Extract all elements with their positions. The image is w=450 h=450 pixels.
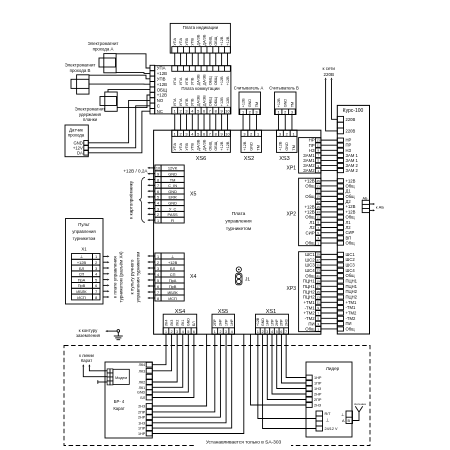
svg-text:+ТМ1: +ТМ1 xyxy=(303,300,315,305)
connector XS2 xyxy=(241,130,262,152)
svg-text:к линии: к линии xyxy=(79,353,94,358)
svg-text:-ТМ2: -ТМ2 xyxy=(305,316,316,321)
svg-text:ОБЩ: ОБЩ xyxy=(208,141,212,150)
wire XS1 +12В to Lider power xyxy=(258,334,316,418)
svg-text:3: 3 xyxy=(157,267,159,271)
svg-text:Общ: Общ xyxy=(305,194,315,199)
svg-text:Общ: Общ xyxy=(305,241,315,246)
svg-text:6: 6 xyxy=(280,330,282,334)
svg-text:ОБЩ: ОБЩ xyxy=(208,76,212,85)
modem box xyxy=(113,369,129,384)
svg-text:УПА: УПА xyxy=(179,142,183,150)
svg-text:GND: GND xyxy=(168,189,177,194)
svg-text:1: 1 xyxy=(257,131,259,136)
svg-text:УПА: УПА xyxy=(173,98,177,106)
svg-text:8: 8 xyxy=(215,131,217,136)
svg-text:планки: планки xyxy=(83,117,98,122)
svg-text:к пульту ручного: к пульту ручного xyxy=(130,259,135,294)
svg-text:3: 3 xyxy=(185,131,187,136)
svg-text:17: 17 xyxy=(317,285,321,289)
svg-text:1: 1 xyxy=(165,330,167,334)
svg-text:Устанавливается только в SA-30: Устанавливается только в SA-303 xyxy=(206,440,282,446)
svg-text:УПА: УПА xyxy=(179,98,183,106)
svg-text:ЗАМ2: ЗАМ2 xyxy=(303,168,315,173)
svg-text:4: 4 xyxy=(182,330,184,334)
svg-text:3: 3 xyxy=(95,267,97,271)
svg-text:Датчик: Датчик xyxy=(69,127,83,132)
svg-text:СИР: СИР xyxy=(306,230,315,235)
svg-text:УПВ: УПВ xyxy=(185,37,189,45)
svg-text:ТМ: ТМ xyxy=(255,102,259,107)
svg-text:ШС3: ШС3 xyxy=(305,263,315,268)
svg-text:ПЦН2: ПЦН2 xyxy=(303,295,315,300)
wire electromagnet hold to ОБЩ xyxy=(108,90,150,92)
svg-text:+12В: +12В xyxy=(256,317,260,326)
svg-text:1: 1 xyxy=(95,255,97,259)
wires XS4 to BR-4 xyxy=(152,334,166,365)
svg-text:ОБЩ: ОБЩ xyxy=(208,97,212,106)
svg-text:1НР: 1НР xyxy=(314,376,322,380)
svg-text:4: 4 xyxy=(157,202,159,206)
svg-text:Курс-100: Курс-100 xyxy=(343,108,364,114)
svg-text:23: 23 xyxy=(317,269,321,273)
svg-text:УПВ: УПВ xyxy=(185,142,189,150)
svg-text:3: 3 xyxy=(176,330,178,334)
svg-text:220В: 220В xyxy=(346,117,356,122)
svg-text:1: 1 xyxy=(157,219,159,223)
svg-text:8: 8 xyxy=(95,296,97,300)
connector XP2 xyxy=(299,178,321,245)
svg-text:У_С: У_С xyxy=(169,206,177,211)
svg-text:ПрА: ПрА xyxy=(78,277,86,282)
svg-text:12VK: 12VK xyxy=(168,166,178,171)
connector XS3 xyxy=(277,130,298,152)
svg-text:1: 1 xyxy=(174,131,176,136)
svg-text:Карат: Карат xyxy=(113,406,124,411)
svg-text:ОБЩ: ОБЩ xyxy=(214,36,218,45)
svg-text:ПЦН1: ПЦН1 xyxy=(346,279,358,284)
svg-text:ЛК4: ЛК4 xyxy=(139,363,146,367)
svg-text:2ПР: 2ПР xyxy=(280,319,284,326)
svg-text:FI: FI xyxy=(171,218,174,223)
svg-text:ЛК2: ЛК2 xyxy=(175,320,179,326)
svg-text:+12В: +12В xyxy=(241,98,245,107)
svg-text:прохода А: прохода А xyxy=(93,47,114,52)
wire sensor DA to NC xyxy=(88,111,150,153)
svg-text:23: 23 xyxy=(317,184,321,188)
svg-text:ШС4: ШС4 xyxy=(346,268,356,273)
svg-text:СП: СП xyxy=(170,272,176,277)
svg-text:13: 13 xyxy=(317,138,321,142)
svg-text:1ПР: 1ПР xyxy=(224,319,228,326)
wire electromagnet hold to +12В xyxy=(117,95,150,108)
svg-text:4: 4 xyxy=(95,273,97,277)
svg-text:1НЗ: 1НЗ xyxy=(314,387,322,391)
svg-text:TM: TM xyxy=(170,177,176,182)
svg-text:6: 6 xyxy=(203,109,205,114)
svg-text:2НР: 2НР xyxy=(314,393,322,397)
svg-text:прохода: прохода xyxy=(68,133,85,138)
connector XS6 xyxy=(172,130,231,152)
svg-text:+12В: +12В xyxy=(278,141,282,150)
svg-text:ЛК1: ЛК1 xyxy=(139,386,146,390)
svg-text:+12В: +12В xyxy=(157,93,167,98)
svg-text:4: 4 xyxy=(271,330,273,334)
svg-text:ШС2: ШС2 xyxy=(305,257,315,262)
connector XP3 xyxy=(299,252,321,332)
svg-text:ШС2: ШС2 xyxy=(346,257,356,262)
svg-text:7: 7 xyxy=(95,290,97,294)
svg-text:2НР: 2НР xyxy=(219,319,223,326)
svg-text:УПВ: УПВ xyxy=(191,98,195,106)
svg-text:1: 1 xyxy=(242,110,244,115)
wires reader B to XS3 xyxy=(278,115,280,131)
svg-text:2: 2 xyxy=(249,110,251,115)
svg-text:2ПР: 2ПР xyxy=(138,410,146,414)
Kurs-100 220V pins xyxy=(337,116,343,122)
svg-text:10: 10 xyxy=(156,167,160,171)
reader A box xyxy=(239,92,261,115)
svg-text:ИСП: ИСП xyxy=(77,295,86,300)
wires XS5 to BR-4 xyxy=(152,334,215,412)
svg-text:1: 1 xyxy=(292,131,294,136)
svg-text:1: 1 xyxy=(157,255,159,259)
svg-text:ДА/ЗВ: ДА/ЗВ xyxy=(202,34,206,45)
svg-text:БР- 4: БР- 4 xyxy=(114,399,125,404)
svg-text:X4: X4 xyxy=(190,274,196,280)
svg-text:8: 8 xyxy=(157,297,159,301)
wire to Lider 2НЗ xyxy=(251,334,307,405)
wires modem to Karat line xyxy=(89,366,107,371)
svg-text:11: 11 xyxy=(317,215,320,219)
svg-text:15: 15 xyxy=(317,290,321,294)
svg-text:11: 11 xyxy=(317,144,320,148)
svg-text:13: 13 xyxy=(317,295,321,299)
svg-text:4: 4 xyxy=(157,273,159,277)
svg-text:Плата индикации: Плата индикации xyxy=(183,25,219,30)
svg-text:УПА: УПА xyxy=(179,37,183,45)
svg-text:ШС1: ШС1 xyxy=(305,252,315,257)
modem service stub wire xyxy=(98,381,107,383)
svg-text:7: 7 xyxy=(157,184,159,188)
svg-text:GND: GND xyxy=(284,99,288,108)
svg-text:ПЦН1: ПЦН1 xyxy=(346,284,358,289)
svg-text:УПА: УПА xyxy=(173,37,177,45)
brace card reader rows xyxy=(139,178,145,223)
svg-text:GND: GND xyxy=(137,391,146,395)
wires XS1 to Lider relay pins xyxy=(286,334,306,377)
svg-text:ПрА: ПрА xyxy=(169,278,177,283)
svg-text:6: 6 xyxy=(95,284,97,288)
Lider power pins xyxy=(316,411,323,416)
svg-text:7: 7 xyxy=(209,109,211,114)
wire electromagnet A to УПА xyxy=(116,54,150,68)
svg-text:БЛ: БЛ xyxy=(140,396,145,400)
svg-text:ЛК2: ЛК2 xyxy=(139,381,146,385)
svg-text:к сети: к сети xyxy=(322,66,335,71)
svg-text:7: 7 xyxy=(157,291,159,295)
svg-text:+12В: +12В xyxy=(220,76,224,85)
svg-text:к картоприёмнику: к картоприёмнику xyxy=(129,180,134,218)
svg-text:+12В: +12В xyxy=(157,71,167,76)
svg-text:ЛК1: ЛК1 xyxy=(181,320,185,326)
svg-text:+ТМ1: +ТМ1 xyxy=(346,300,357,305)
svg-text:прохода В: прохода В xyxy=(70,68,91,73)
svg-text:21: 21 xyxy=(317,189,321,193)
svg-text:УПА: УПА xyxy=(157,66,166,71)
svg-text:6: 6 xyxy=(203,131,205,136)
svg-text:25: 25 xyxy=(317,263,321,267)
svg-text:1: 1 xyxy=(277,110,279,115)
svg-text:24/12 V: 24/12 V xyxy=(325,427,339,431)
svg-text:1НЗ: 1НЗ xyxy=(138,421,146,425)
svg-text:Общ: Общ xyxy=(305,273,315,278)
svg-text:5: 5 xyxy=(95,278,97,282)
svg-text:ДА/ЗВ: ДА/ЗВ xyxy=(202,74,206,85)
svg-text:БЛ: БЛ xyxy=(79,266,85,271)
connector X5 xyxy=(155,165,161,171)
svg-text:ЗАМ 2: ЗАМ 2 xyxy=(346,168,359,173)
svg-text:25: 25 xyxy=(317,179,321,183)
svg-text:Общ: Общ xyxy=(346,273,356,278)
svg-text:5: 5 xyxy=(157,196,159,200)
svg-text:ПЦН2: ПЦН2 xyxy=(346,289,358,294)
svg-text:УПА: УПА xyxy=(173,77,177,85)
svg-text:PASS: PASS xyxy=(168,212,178,217)
svg-text:Электромагнит: Электромагнит xyxy=(65,63,96,68)
svg-text:к контуру: к контуру xyxy=(79,328,99,333)
svg-text:УПВ: УПВ xyxy=(185,98,189,106)
svg-text:7: 7 xyxy=(209,131,211,136)
svg-text:+ТМ2: +ТМ2 xyxy=(303,311,315,316)
svg-text:2ПР: 2ПР xyxy=(314,398,322,402)
svg-text:5: 5 xyxy=(157,279,159,283)
svg-text:Считыватель А: Считыватель А xyxy=(234,85,264,90)
svg-text:Антенна: Антенна xyxy=(354,402,366,406)
svg-text:Модем: Модем xyxy=(115,376,127,380)
svg-text:1ПР: 1ПР xyxy=(138,427,146,431)
svg-text:+12В: +12В xyxy=(77,260,87,265)
svg-text:УПВ: УПВ xyxy=(157,77,166,82)
svg-text:C_IN: C_IN xyxy=(168,183,177,188)
svg-text:Общ: Общ xyxy=(346,326,356,331)
svg-text:УПВ: УПВ xyxy=(191,142,195,150)
jumper J1 xyxy=(236,267,241,272)
svg-text:+12В: +12В xyxy=(220,97,224,106)
svg-text:J1: J1 xyxy=(245,277,250,283)
wire BR-4 2НЗ up xyxy=(152,334,206,406)
svg-text:GND: GND xyxy=(261,318,265,326)
svg-text:ХР3: ХР3 xyxy=(287,286,297,292)
Lider antenna connector xyxy=(346,411,353,424)
svg-text:управления турникетом: управления турникетом xyxy=(136,252,141,303)
svg-text:ПЦН1: ПЦН1 xyxy=(303,284,315,289)
svg-text:+12В: +12В xyxy=(226,141,230,150)
svg-text:⊥: ⊥ xyxy=(326,418,330,423)
svg-text:17: 17 xyxy=(317,200,321,204)
wires reader A to XS2 xyxy=(242,115,244,131)
reader B box xyxy=(275,92,297,115)
svg-text:1НР: 1НР xyxy=(138,432,146,436)
svg-text:3: 3 xyxy=(185,109,187,114)
svg-text:1: 1 xyxy=(257,330,259,334)
indication board Плата индикации xyxy=(170,23,230,53)
svg-text:6: 6 xyxy=(193,330,195,334)
svg-text:ОБЩ: ОБЩ xyxy=(208,36,212,45)
dashed box SA-303 option xyxy=(64,346,370,446)
svg-text:2НР: 2НР xyxy=(138,416,146,420)
svg-text:1НР: 1НР xyxy=(266,319,270,326)
svg-text:2: 2 xyxy=(157,261,159,265)
svg-text:NO: NO xyxy=(157,98,164,103)
wire XS1 GND to Lider 24/12V xyxy=(263,334,316,428)
svg-text:-ТМ1: -ТМ1 xyxy=(346,305,356,310)
svg-text:Плата коммутации: Плата коммутации xyxy=(181,86,220,91)
commutation board Плата коммутации xyxy=(155,66,231,114)
svg-text:ПрВ: ПрВ xyxy=(78,283,86,288)
svg-text:1: 1 xyxy=(214,330,216,334)
svg-text:9: 9 xyxy=(157,173,159,177)
svg-text:6: 6 xyxy=(157,190,159,194)
svg-text:2НЗ: 2НЗ xyxy=(284,319,288,326)
electromagnet hold coil xyxy=(100,97,117,106)
antenna symbol xyxy=(353,412,360,421)
X1 arrows to main board xyxy=(103,255,107,257)
svg-text:Считыватель В: Считыватель В xyxy=(269,85,299,90)
svg-text:ПрВ: ПрВ xyxy=(169,284,177,289)
connector XP1 xyxy=(299,138,321,173)
svg-text:ОБЩ: ОБЩ xyxy=(214,76,218,85)
passage sensor Датчик прохода xyxy=(65,125,88,157)
svg-text:ERR: ERR xyxy=(168,195,176,200)
svg-text:УПА: УПА xyxy=(173,142,177,150)
svg-text:GND: GND xyxy=(285,142,289,151)
Kurs-100 XP3 pins and wires xyxy=(337,252,343,256)
svg-text:ДА/ЗВ: ДА/ЗВ xyxy=(202,139,206,150)
svg-text:+12В: +12В xyxy=(277,98,281,107)
svg-text:ШС4: ШС4 xyxy=(305,268,315,273)
svg-text:3: 3 xyxy=(279,131,281,136)
svg-text:ХР2: ХР2 xyxy=(287,212,297,218)
svg-text:2: 2 xyxy=(250,131,252,136)
svg-text:ПЦН2: ПЦН2 xyxy=(346,295,358,300)
svg-text:19: 19 xyxy=(317,195,321,199)
svg-text:2: 2 xyxy=(95,261,97,265)
main board Плата управления турникетом xyxy=(154,130,321,334)
svg-text:2: 2 xyxy=(219,330,221,334)
Lider relay pins xyxy=(306,375,312,380)
svg-text:удержания: удержания xyxy=(79,112,102,117)
svg-text:Общ: Общ xyxy=(305,327,315,332)
svg-text:ОБЩ: ОБЩ xyxy=(214,97,218,106)
svg-text:ДА/ЗВ: ДА/ЗВ xyxy=(197,74,201,85)
svg-text:21: 21 xyxy=(317,274,321,278)
Lider unit xyxy=(306,362,352,437)
svg-text:1ПР: 1ПР xyxy=(270,319,274,326)
svg-text:3: 3 xyxy=(225,330,227,334)
svg-text:8: 8 xyxy=(157,178,159,182)
svg-text:9: 9 xyxy=(221,109,223,114)
svg-text:DA: DA xyxy=(77,150,83,155)
svg-text:⊥: ⊥ xyxy=(341,412,345,417)
svg-text:турникетом (разъём Х4): турникетом (разъём Х4) xyxy=(119,251,124,303)
wire sensor GND to NO xyxy=(88,100,150,142)
svg-text:+12В: +12В xyxy=(220,36,224,45)
X5 arrows to card reader xyxy=(150,167,155,169)
X4 arrows to manual control xyxy=(150,255,155,257)
svg-text:5: 5 xyxy=(276,330,278,334)
svg-text:+ТМ2: +ТМ2 xyxy=(346,310,357,315)
svg-text:Лидер: Лидер xyxy=(326,366,340,371)
svg-text:3: 3 xyxy=(243,131,245,136)
svg-text:C: C xyxy=(157,104,160,109)
svg-text:УПВ: УПВ xyxy=(191,37,195,45)
svg-text:+12В: +12В xyxy=(243,141,247,150)
svg-text:GND: GND xyxy=(187,318,191,326)
svg-text:ЛК3: ЛК3 xyxy=(170,320,174,326)
svg-text:к плате управления: к плате управления xyxy=(113,256,118,298)
svg-text:ПЦН2: ПЦН2 xyxy=(303,289,315,294)
svg-text:3: 3 xyxy=(255,110,257,115)
svg-text:управления: управления xyxy=(225,219,252,224)
svg-text:Общ: Общ xyxy=(346,241,356,246)
svg-text:7: 7 xyxy=(285,330,287,334)
svg-text:3: 3 xyxy=(291,110,293,115)
svg-text:ИБЛК: ИБЛК xyxy=(76,289,87,294)
svg-text:13: 13 xyxy=(317,210,321,214)
svg-text:1НР: 1НР xyxy=(230,319,234,326)
Kurs-100 XP1 pins and wires xyxy=(337,138,343,142)
svg-text:ПИ: ПИ xyxy=(346,321,352,326)
svg-text:2: 2 xyxy=(180,109,182,114)
ground symbol xyxy=(117,330,120,333)
svg-text:ОБЩ: ОБЩ xyxy=(214,141,218,150)
BR-4 pins xyxy=(146,362,152,367)
svg-text:220В: 220В xyxy=(346,128,356,133)
wires indication to commutation board xyxy=(174,53,176,66)
svg-text:9: 9 xyxy=(221,131,223,136)
svg-text:220В: 220В xyxy=(323,72,334,77)
svg-text:4: 4 xyxy=(231,330,233,334)
svg-text:ДА/ЗВ: ДА/ЗВ xyxy=(197,34,201,45)
svg-text:15: 15 xyxy=(317,205,321,209)
svg-text:Плата: Плата xyxy=(232,211,246,217)
svg-text:3: 3 xyxy=(157,207,159,211)
svg-text:ИСП: ИСП xyxy=(168,296,177,301)
svg-text:ШС1: ШС1 xyxy=(346,252,356,257)
svg-text:ТМ: ТМ xyxy=(256,145,260,150)
svg-text:турникетом: турникетом xyxy=(73,236,96,241)
svg-text:2: 2 xyxy=(157,213,159,217)
svg-text:-ТМ1: -ТМ1 xyxy=(305,305,316,310)
svg-text:ПЦН1: ПЦН1 xyxy=(303,279,315,284)
svg-text:ПИ: ПИ xyxy=(308,321,314,326)
svg-text:+12В / 0,2А: +12В / 0,2А xyxy=(123,168,148,173)
svg-text:Общ: Общ xyxy=(305,184,315,189)
svg-text:ТМ: ТМ xyxy=(292,145,296,150)
svg-text:2НЗ: 2НЗ xyxy=(138,405,146,409)
svg-text:29: 29 xyxy=(317,253,321,257)
svg-text:ШС3: ШС3 xyxy=(346,263,356,268)
wires to mains 220V xyxy=(332,80,338,119)
connector X4 xyxy=(155,253,161,259)
svg-text:2НЗ: 2НЗ xyxy=(314,404,322,408)
svg-text:к АБ: к АБ xyxy=(376,205,385,210)
svg-text:ДА/ЗВ: ДА/ЗВ xyxy=(197,95,201,106)
wire electromagnet B to +12В xyxy=(89,83,150,85)
Kurs-100 XP2 pins and wires xyxy=(337,179,343,183)
svg-text:+12В: +12В xyxy=(226,36,230,45)
